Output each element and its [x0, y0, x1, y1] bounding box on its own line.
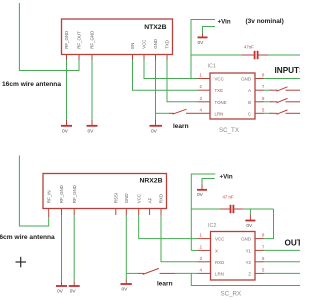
svg-text:0V: 0V [197, 192, 204, 198]
svg-text:RF_GND: RF_GND [59, 185, 64, 203]
svg-text:TXE: TXE [215, 88, 224, 93]
IC1 right pin stubs [255, 79, 264, 114]
wire cap row left (top) [191, 54, 243, 56]
IC2 pin numbers left [200, 233, 203, 273]
svg-text:0V: 0V [88, 129, 95, 135]
switch SW learn (top) [170, 109, 198, 114]
wire M2 GND pin to ground [125, 215, 127, 280]
IC2 body [211, 232, 256, 281]
ground G6 [69, 282, 80, 295]
svg-text:0V: 0V [122, 287, 129, 293]
svg-text:16cm wire antenna: 16cm wire antenna [2, 81, 61, 88]
wire M2 VCC to IC2 pin1 [139, 215, 198, 239]
receiver module M2 NRX2B body [43, 174, 167, 209]
svg-text:SC_TX: SC_TX [219, 127, 239, 134]
svg-text:(3v nominal): (3v nominal) [246, 18, 284, 25]
wire bottom rail to edge [191, 273, 300, 285]
module M1 pin stubs [67, 55, 168, 61]
capacitor C2 47 nF [220, 195, 243, 214]
svg-text:0V: 0V [198, 40, 205, 46]
IC1 left pin stubs [198, 79, 211, 114]
switch SW B [270, 98, 300, 102]
IC2 pin names left [215, 237, 224, 277]
svg-text:Y1: Y1 [246, 248, 252, 253]
svg-text:0V: 0V [70, 289, 77, 295]
svg-text:IC1: IC1 [208, 64, 216, 70]
svg-text:RXD: RXD [215, 260, 224, 265]
wire to switch B [264, 101, 271, 103]
svg-text:VCC: VCC [215, 237, 224, 242]
IC2 right pin stubs [255, 239, 264, 274]
power rail +Vin (bottom) [191, 174, 215, 250]
wire cap row right (bottom) [243, 208, 274, 210]
wire IC2 Z row to edge [264, 272, 300, 274]
wire IC2 Y1 row to edge [264, 249, 300, 251]
svg-text:0V: 0V [57, 289, 64, 295]
svg-text:RF_OUT: RF_OUT [77, 31, 82, 49]
svg-text:OUTPUTS: OUTPUTS [285, 239, 301, 248]
wire antenna vertical (bottom) [19, 156, 48, 227]
IC1 pin numbers left [200, 73, 203, 113]
ground G7 [121, 280, 132, 293]
wire learn row (top) [156, 112, 171, 114]
wire learn row (bottom) [126, 272, 139, 274]
IC1 pin names right [241, 77, 251, 117]
svg-text:RXD: RXD [159, 194, 164, 203]
svg-text:+Vin: +Vin [220, 174, 233, 181]
svg-text:TXD: TXD [165, 40, 170, 49]
svg-text:AF: AF [147, 197, 152, 203]
svg-text:16cm wire antenna: 16cm wire antenna [0, 234, 55, 241]
ground G9 [245, 215, 255, 230]
svg-text:IC2: IC2 [208, 223, 216, 229]
svg-text:0V: 0V [246, 223, 253, 229]
svg-text:NTX2B: NTX2B [144, 24, 166, 31]
svg-text:C: C [248, 111, 251, 116]
wire 0V stub (top) [203, 27, 216, 34]
wire cap row down to IC2 pin8 [264, 209, 274, 239]
svg-text:TONE: TONE [215, 100, 227, 105]
transmitter module M1 NTX2B body [62, 19, 173, 55]
capacitor C1 47nF [242, 45, 268, 60]
IC2 left pin stubs [198, 239, 211, 274]
svg-text:X: X [215, 248, 218, 253]
svg-text:47nF: 47nF [244, 45, 254, 50]
svg-text:+Vin: +Vin [218, 19, 231, 26]
wire M2 RF_GND pin2 to ground [61, 215, 63, 282]
wire antenna vertical (top) [19, 3, 79, 71]
wire EN to IC1 pin2 [133, 60, 198, 90]
svg-text:GND: GND [153, 39, 158, 49]
svg-text:Z: Z [248, 271, 251, 276]
svg-text:SC_RX: SC_RX [221, 291, 242, 298]
svg-text:learn: learn [157, 281, 173, 288]
ground G8 [197, 185, 207, 199]
wire TXD to IC1 pin3 [167, 60, 198, 102]
svg-text:Y2: Y2 [246, 260, 252, 265]
wire learn to IC2 pin4 [175, 272, 198, 274]
cross marker [16, 257, 27, 268]
svg-text:INPUTS: INPUTS [275, 66, 301, 75]
svg-text:RF_GND: RF_GND [90, 31, 95, 49]
wire cap ground drop [249, 209, 251, 215]
wire VCC to IC1 pin1 [144, 60, 198, 79]
ground G5 [56, 282, 67, 295]
svg-text:0V: 0V [62, 129, 69, 135]
svg-text:RF_IN: RF_IN [46, 191, 51, 204]
svg-text:47 nF: 47 nF [223, 195, 234, 200]
ground G2 [87, 120, 98, 135]
wire to switch C [264, 112, 271, 114]
ground G1 [61, 120, 72, 135]
wire to switch A [264, 89, 271, 91]
wire IC2 pin2 X link [191, 249, 197, 251]
switch SW C [270, 110, 300, 114]
svg-text:EN: EN [130, 43, 135, 49]
wire RF_GND pin1 to ground [66, 60, 68, 120]
ground G3 [150, 120, 163, 135]
wire IC2 Y2 row to edge [264, 261, 300, 263]
svg-text:RF_GND: RF_GND [72, 185, 77, 203]
svg-text:0V: 0V [151, 129, 158, 135]
svg-text:GND: GND [124, 193, 129, 203]
wire cap row left (bottom) [191, 208, 221, 210]
wire M2 RXD to IC2 pin3 [161, 215, 198, 262]
svg-text:B: B [248, 100, 251, 105]
switch SW A [270, 87, 300, 91]
ground G4 [198, 34, 208, 47]
svg-text:VCC: VCC [142, 40, 147, 49]
svg-text:RSSI: RSSI [114, 193, 119, 203]
IC2 pin names right [241, 237, 251, 277]
IC1 pin numbers right [262, 73, 265, 113]
IC1 pin names left [215, 77, 227, 117]
wire IC1 GND row to edge [264, 78, 300, 80]
wire 0V stub (bottom) [202, 179, 215, 185]
IC2 pin numbers right [262, 233, 265, 273]
svg-text:VCC: VCC [136, 194, 141, 203]
wire RF_GND pin3 to ground [91, 60, 93, 120]
svg-text:learn: learn [173, 123, 189, 130]
switch SW learn (bottom) [138, 268, 175, 274]
svg-text:VCC: VCC [215, 77, 224, 82]
wire GND pin to ground [155, 60, 157, 120]
module M2 pin stubs [49, 209, 161, 218]
svg-text:LRN: LRN [215, 111, 224, 116]
wire cap row right (top) [268, 54, 300, 56]
svg-text:GND: GND [241, 237, 251, 242]
svg-text:GND: GND [241, 77, 251, 82]
IC1 body [210, 73, 255, 119]
wire M2 RF_GND pin3 to ground [73, 215, 75, 282]
svg-text:NRX2B: NRX2B [139, 178, 162, 185]
svg-text:RF_GND: RF_GND [64, 31, 69, 49]
svg-text:LRN: LRN [215, 271, 224, 276]
svg-text:A: A [248, 88, 251, 93]
power rail +Vin (top) [191, 20, 215, 79]
